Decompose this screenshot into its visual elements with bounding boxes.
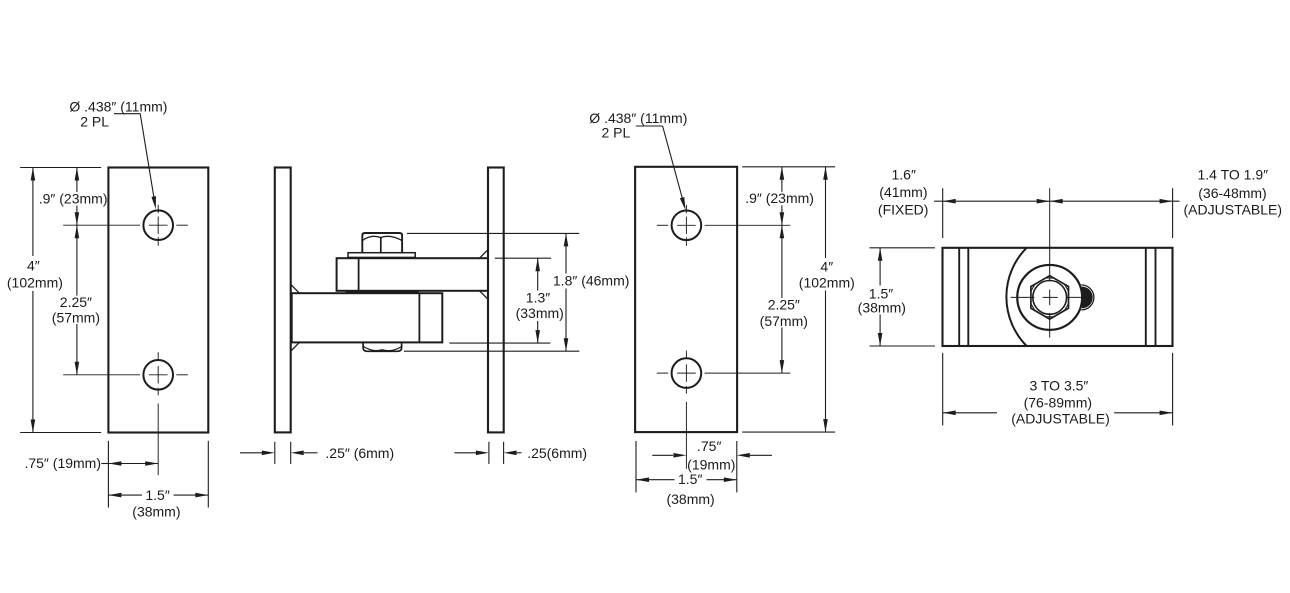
svg-text:(57mm): (57mm) (760, 313, 808, 329)
svg-text:(38mm): (38mm) (132, 504, 180, 520)
svg-text:(57mm): (57mm) (52, 309, 100, 325)
svg-text:1.8″ (46mm): 1.8″ (46mm) (553, 273, 630, 289)
svg-text:.9″ (23mm): .9″ (23mm) (39, 191, 108, 207)
svg-text:(36-48mm): (36-48mm) (1198, 185, 1266, 201)
svg-text:.25″ (6mm): .25″ (6mm) (325, 445, 394, 461)
svg-text:2.25″: 2.25″ (60, 294, 92, 310)
svg-text:.9″ (23mm): .9″ (23mm) (745, 190, 814, 206)
svg-text:(FIXED): (FIXED) (878, 201, 929, 217)
svg-text:1.6″: 1.6″ (891, 166, 915, 182)
svg-text:4″: 4″ (27, 258, 40, 274)
svg-text:.75″: .75″ (697, 438, 721, 454)
svg-text:2.25″: 2.25″ (768, 297, 800, 313)
svg-text:(33mm): (33mm) (516, 305, 564, 321)
svg-text:(38mm): (38mm) (666, 491, 714, 507)
svg-text:.75″ (19mm): .75″ (19mm) (24, 455, 101, 471)
svg-text:1.3″: 1.3″ (526, 290, 550, 306)
svg-text:(19mm): (19mm) (687, 456, 735, 472)
svg-text:.25(6mm): .25(6mm) (527, 445, 587, 461)
svg-text:(102mm): (102mm) (7, 274, 63, 290)
svg-text:1.5″: 1.5″ (145, 487, 169, 503)
svg-text:1.4 TO 1.9″: 1.4 TO 1.9″ (1197, 167, 1268, 183)
svg-text:2 PL: 2 PL (602, 125, 631, 141)
svg-text:Ø .438″ (11mm): Ø .438″ (11mm) (69, 99, 167, 115)
svg-text:(ADJUSTABLE): (ADJUSTABLE) (1184, 202, 1283, 218)
svg-text:2 PL: 2 PL (80, 113, 109, 129)
svg-text:(102mm): (102mm) (799, 275, 855, 291)
svg-text:(38mm): (38mm) (858, 299, 906, 315)
svg-text:3 TO 3.5″: 3 TO 3.5″ (1029, 378, 1088, 394)
svg-text:4″: 4″ (820, 259, 833, 275)
svg-text:(ADJUSTABLE): (ADJUSTABLE) (1011, 411, 1110, 427)
svg-text:1.5″: 1.5″ (678, 471, 702, 487)
svg-text:(41mm): (41mm) (879, 184, 927, 200)
svg-text:(76-89mm): (76-89mm) (1024, 394, 1092, 410)
